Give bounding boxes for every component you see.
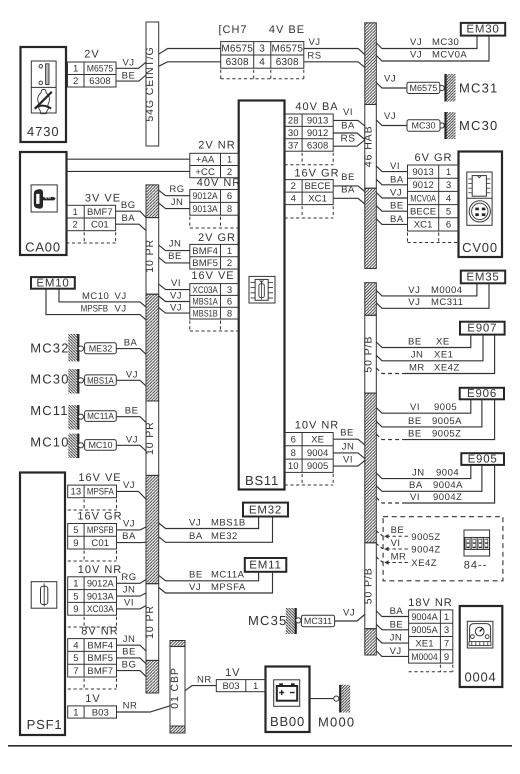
- svg-text:9012A: 9012A: [193, 191, 219, 202]
- trunk 50 P/B: [362, 283, 376, 655]
- svg-text:8: 8: [291, 448, 296, 459]
- wire JN BS11 9004 to trunk 50 P/B: [333, 441, 365, 458]
- svg-text:1: 1: [253, 681, 258, 692]
- wire CA00 to BS11 pin +CC: [67, 170, 190, 172]
- node EM11: [245, 558, 286, 572]
- svg-text:8: 8: [227, 308, 232, 319]
- svg-text:MBS1B: MBS1B: [193, 308, 218, 319]
- svg-text:XE1: XE1: [434, 350, 453, 361]
- wire BE trunk 50 P/B to E906 (9005A): [376, 399, 482, 427]
- svg-text:13: 13: [71, 487, 82, 498]
- svg-text:8V NR: 8V NR: [81, 626, 118, 638]
- svg-text:NR: NR: [123, 701, 138, 712]
- svg-text:B03: B03: [222, 681, 239, 692]
- svg-text:50 P/B: 50 P/B: [362, 567, 374, 604]
- svg-text:9005: 9005: [307, 461, 329, 472]
- svg-text:BE: BE: [122, 647, 136, 658]
- svg-text:40V BA: 40V BA: [295, 101, 338, 113]
- component PSF1 engine fuse box: [20, 473, 65, 736]
- svg-text:M6575: M6575: [87, 64, 114, 75]
- connector 10V NR of BS11: [285, 420, 340, 486]
- svg-text:VJ: VJ: [170, 303, 182, 314]
- ground MC10: [30, 434, 116, 459]
- ground MC35: [286, 608, 335, 634]
- svg-text:1V: 1V: [85, 693, 100, 705]
- trunk 46 HAB: [362, 23, 376, 269]
- svg-text:VJ: VJ: [189, 582, 201, 593]
- wire BG from CA00 BMF7 to trunk 10 PR: [116, 200, 146, 218]
- svg-text:VI: VI: [390, 161, 400, 172]
- svg-text:CA00: CA00: [25, 240, 61, 255]
- wire VJ PSF1 MPSFA to trunk 10 PR: [117, 480, 147, 499]
- svg-text:M6575: M6575: [409, 83, 437, 93]
- wire BE trunk 54G to CH7 pin4: [159, 62, 221, 67]
- svg-text:BMF4: BMF4: [87, 640, 113, 651]
- svg-text:M000: M000: [318, 715, 355, 730]
- wire RS CH7 to trunk 46 HAB: [304, 50, 365, 67]
- wire BA trunk 50 P/B to 0004: [376, 606, 408, 617]
- svg-text:8: 8: [227, 204, 232, 215]
- svg-text:3: 3: [446, 180, 451, 191]
- node E906: [460, 388, 504, 400]
- svg-text:M6575: M6575: [272, 44, 304, 55]
- wire BA trunk 50 P/B to E905 (9004A): [376, 465, 482, 491]
- wire JN PSF1 BMF4 to trunk 10 PR: [117, 634, 147, 651]
- wire BA BS11 XC1 to trunk 46 HAB: [333, 185, 365, 204]
- svg-text:VI: VI: [343, 455, 353, 466]
- trunk 54G CEINT/G: [144, 22, 159, 146]
- wire VJ trunk 46 HAB to ground MC31: [376, 74, 407, 89]
- wire VJ CH7 to trunk 46 HAB: [304, 37, 365, 55]
- svg-text:6308: 6308: [89, 76, 111, 87]
- svg-text:2V: 2V: [84, 49, 99, 61]
- svg-text:4730: 4730: [27, 124, 60, 139]
- wire BA BS11 9012 to trunk 46 HAB: [333, 120, 365, 139]
- svg-text:VJ: VJ: [170, 290, 182, 301]
- svg-text:BE: BE: [189, 570, 203, 581]
- svg-text:VI: VI: [391, 538, 401, 549]
- wire VI PSF1 XC03A to trunk 10 PR: [117, 598, 147, 609]
- svg-text:3: 3: [259, 44, 265, 55]
- wire BE BS11 XE to trunk 50 P/B: [333, 428, 365, 445]
- svg-text:BE: BE: [122, 70, 136, 81]
- svg-text:7: 7: [444, 638, 449, 649]
- node EM10: [31, 277, 75, 289]
- svg-text:50 P/B: 50 P/B: [362, 336, 374, 373]
- svg-text:BA: BA: [189, 531, 203, 542]
- wire RG PSF1 9012A to trunk 10 PR: [117, 572, 147, 583]
- svg-text:46 HAB: 46 HAB: [362, 126, 374, 168]
- svg-text:RG: RG: [169, 184, 184, 195]
- svg-text:BE: BE: [408, 429, 422, 440]
- svg-text:16V GR: 16V GR: [294, 167, 339, 179]
- wire JN PSF1 9013A to trunk 10 PR: [117, 585, 147, 596]
- svg-text:BA: BA: [390, 606, 404, 617]
- svg-text:54G CEINT/G: 54G CEINT/G: [144, 46, 156, 121]
- svg-text:MPSFB: MPSFB: [87, 525, 114, 536]
- svg-text:9013: 9013: [307, 116, 329, 127]
- wire NR PSF1 B03 to trunk 01 CBP: [117, 701, 171, 712]
- svg-text:1: 1: [446, 167, 451, 178]
- wire BE trunk 46 HAB to CV00 pin 3: [376, 201, 407, 212]
- node EM30: [461, 23, 505, 36]
- svg-text:9: 9: [73, 604, 78, 615]
- svg-text:9005A: 9005A: [411, 625, 438, 636]
- svg-text:MC32: MC32: [30, 341, 69, 356]
- svg-text:PSF1: PSF1: [27, 717, 63, 732]
- svg-text:MC311: MC311: [431, 297, 463, 308]
- svg-text:M0004: M0004: [431, 285, 463, 296]
- svg-text:40V NR: 40V NR: [197, 177, 242, 189]
- svg-text:XE4Z: XE4Z: [434, 362, 460, 373]
- connector 3V VE of CA00: [66, 193, 121, 244]
- svg-text:MPSFA: MPSFA: [211, 582, 246, 593]
- wire RS BS11 6308 to trunk 46 HAB: [333, 134, 365, 147]
- component 4730 seat-belt pretensioner: [21, 47, 67, 142]
- svg-text:2: 2: [227, 258, 232, 269]
- svg-text:VJ: VJ: [126, 434, 138, 445]
- node E905: [461, 453, 504, 465]
- svg-text:2V NR: 2V NR: [198, 140, 235, 152]
- svg-text:9: 9: [73, 538, 78, 549]
- svg-text:5: 5: [73, 591, 78, 602]
- wire VJ trunk 46 HAB to EM30 (MC30): [376, 36, 477, 49]
- connector 8V NR of PSF1: [68, 626, 119, 689]
- svg-text:9005Z: 9005Z: [432, 429, 461, 440]
- connector 1V of BB00: [216, 667, 265, 692]
- svg-text:5: 5: [446, 207, 451, 218]
- svg-text:MC30: MC30: [30, 372, 69, 387]
- svg-text:9: 9: [444, 652, 449, 663]
- svg-text:BA: BA: [409, 480, 423, 491]
- svg-text:BA: BA: [124, 338, 138, 349]
- svg-text:MC11A: MC11A: [211, 570, 245, 581]
- connector 6V GR of CV00: [408, 152, 459, 243]
- svg-text:6308: 6308: [276, 57, 299, 68]
- svg-text:9004A: 9004A: [411, 612, 438, 623]
- svg-text:EM10: EM10: [36, 277, 69, 289]
- svg-text:7: 7: [73, 666, 78, 677]
- svg-text:MC311: MC311: [304, 616, 332, 626]
- connector 16V GR of BS11: [285, 167, 340, 218]
- wire BG PSF1 BMF7 to trunk 10 PR: [117, 659, 147, 676]
- svg-text:3: 3: [444, 625, 449, 636]
- svg-text:16V GR: 16V GR: [77, 511, 122, 523]
- svg-text:MR: MR: [409, 362, 425, 373]
- wire BA trunk 46 HAB to CV00 pin 1: [376, 174, 407, 185]
- svg-text:2V GR: 2V GR: [198, 232, 236, 244]
- ground MC30 body: [30, 369, 116, 394]
- ground MC32: [30, 334, 116, 362]
- svg-text:MC35: MC35: [248, 613, 287, 628]
- connector 18V NR of 0004: [408, 597, 453, 672]
- svg-text:EM32: EM32: [249, 504, 282, 516]
- svg-text:XE: XE: [436, 336, 450, 347]
- svg-text:+AA: +AA: [196, 155, 215, 166]
- svg-text:16V VE: 16V VE: [191, 270, 234, 282]
- svg-text:VJ: VJ: [384, 74, 396, 85]
- svg-text:XE4Z: XE4Z: [411, 558, 437, 569]
- svg-text:JN: JN: [411, 350, 424, 361]
- svg-text:BECE: BECE: [410, 207, 436, 218]
- svg-text:MC30: MC30: [411, 121, 435, 131]
- wire VJ from 4730 pin1 to trunk 54G: [116, 58, 146, 69]
- svg-text:2: 2: [291, 181, 296, 192]
- wire JN trunk 50 P/B to E905 (9004): [376, 465, 471, 479]
- svg-text:CV00: CV00: [462, 240, 498, 255]
- svg-text:BB00: BB00: [270, 714, 305, 729]
- connector CH7 intermediate (4V BE): [218, 24, 305, 79]
- wire VJ PSF1 MPSFB to trunk 10 PR: [117, 518, 147, 530]
- ground MC31: [407, 74, 499, 102]
- svg-text:VJ: VJ: [115, 291, 127, 302]
- svg-text:9013A: 9013A: [193, 204, 219, 215]
- svg-text:VJ: VJ: [308, 37, 320, 48]
- wire VJ EM10 to trunk 10 PR (MPSFB): [46, 289, 146, 320]
- svg-text:1: 1: [444, 612, 449, 623]
- svg-text:30: 30: [288, 128, 299, 139]
- svg-text:E905: E905: [468, 454, 498, 466]
- svg-text:MCV0A: MCV0A: [432, 50, 467, 61]
- svg-text:XC1: XC1: [414, 220, 433, 231]
- svg-text:BG: BG: [122, 659, 137, 670]
- connector 10V NR of PSF1: [68, 564, 123, 627]
- svg-text:BA: BA: [390, 174, 404, 185]
- svg-text:MCV0A: MCV0A: [410, 193, 436, 204]
- svg-text:6308: 6308: [307, 140, 329, 151]
- svg-text:1: 1: [72, 207, 77, 218]
- wire VJ trunk 10 PR to BS11 MBS1A: [159, 290, 190, 301]
- svg-text:MC10: MC10: [30, 435, 69, 450]
- svg-text:JN: JN: [123, 634, 136, 645]
- wire BE trunk 10 PR to EM11 (MC11A): [159, 570, 259, 581]
- svg-text:BMF5: BMF5: [87, 653, 113, 664]
- svg-text:BG: BG: [121, 200, 136, 211]
- svg-text:9012: 9012: [307, 128, 329, 139]
- svg-text:9004: 9004: [307, 448, 329, 459]
- svg-text:BS11: BS11: [245, 473, 279, 488]
- node E907: [460, 322, 505, 335]
- svg-text:VJ: VJ: [123, 518, 135, 529]
- svg-text:BMF7: BMF7: [87, 666, 113, 677]
- svg-text:M6575: M6575: [221, 44, 253, 55]
- svg-text:1: 1: [227, 246, 232, 257]
- wire BA trunk 10 PR to EM32 (ME32): [159, 517, 273, 543]
- svg-text:C01: C01: [91, 538, 109, 549]
- svg-text:10: 10: [288, 461, 299, 472]
- wire BE trunk 50 P/B to E906 (9005Z, partly dashed): [376, 399, 494, 439]
- svg-text:5: 5: [73, 525, 78, 536]
- connector 1V of PSF1: [68, 693, 117, 718]
- svg-text:BE: BE: [168, 251, 182, 262]
- component BS11 body control unit: [239, 101, 285, 490]
- svg-text:JN: JN: [412, 468, 425, 479]
- svg-text:9004: 9004: [436, 468, 459, 479]
- svg-text:RG: RG: [121, 572, 136, 583]
- svg-text:MC30: MC30: [432, 37, 459, 48]
- connector 2V NR of BS11: [190, 140, 239, 178]
- svg-text:9012: 9012: [412, 180, 434, 191]
- svg-text:0004: 0004: [464, 670, 496, 685]
- wire NR trunk 01 CBP to BB00 B03: [185, 675, 216, 691]
- wire MR trunk 50 P/B to E907 (XE4Z, partly dashed): [376, 335, 494, 374]
- svg-text:10 PR: 10 PR: [144, 239, 156, 273]
- svg-text:BMF7: BMF7: [87, 207, 113, 218]
- wire VJ trunk 46 HAB to ground MC30: [376, 111, 407, 126]
- svg-text:1: 1: [73, 707, 78, 718]
- wire VJ trunk 10 PR to EM32 (MBS1B): [159, 517, 259, 529]
- wire BE ground MC11 to trunk 10 PR: [116, 406, 146, 423]
- wire VJ ground MC35 to trunk 50 P/B: [335, 608, 365, 622]
- svg-text:01 CBP: 01 CBP: [169, 667, 181, 709]
- svg-text:10 PR: 10 PR: [144, 605, 156, 639]
- svg-text:VJ: VJ: [410, 37, 422, 48]
- svg-text:BE: BE: [408, 416, 422, 427]
- component CV00 diagnostic connector: [459, 152, 503, 258]
- svg-text:EM35: EM35: [466, 271, 499, 283]
- svg-text:10V NR: 10V NR: [78, 564, 123, 576]
- trunk 01 CBP: [169, 641, 185, 734]
- wire BA trunk 46 HAB to CV00 pin 4: [376, 214, 407, 225]
- svg-text:BA: BA: [121, 213, 135, 224]
- label MC35: [248, 613, 287, 628]
- svg-text:37: 37: [288, 140, 299, 151]
- node EM35: [461, 271, 505, 284]
- svg-text:BA: BA: [122, 531, 136, 542]
- wire VJ trunk 46 HAB to EM30 (MCV0A): [376, 36, 489, 61]
- svg-text:1: 1: [73, 579, 78, 590]
- svg-text:[CH7: [CH7: [218, 24, 247, 36]
- svg-text:9013A: 9013A: [87, 591, 115, 602]
- wire VI BS11 9013 to trunk 46 HAB: [333, 107, 365, 126]
- wire VJ ground MC30 to trunk 10 PR: [116, 369, 146, 386]
- svg-text:5: 5: [73, 653, 78, 664]
- svg-text:RS: RS: [307, 50, 321, 61]
- connector 16V VE of PSF1: [68, 472, 122, 510]
- wire RG trunk 10 PR to BS11 9012A: [159, 184, 190, 196]
- svg-text:16V VE: 16V VE: [78, 472, 121, 484]
- page footer rule: [8, 745, 512, 747]
- svg-text:VJ: VJ: [343, 608, 355, 619]
- svg-text:MC11A: MC11A: [87, 411, 114, 421]
- svg-text:9004A: 9004A: [433, 480, 463, 491]
- wire VI trunk 50 P/B to E905 (9004Z, partly dashed): [376, 465, 494, 503]
- wire BE from 4730 pin2 to trunk 54G: [116, 70, 146, 81]
- svg-text:3: 3: [227, 285, 232, 296]
- svg-text:JN: JN: [123, 585, 136, 596]
- svg-text:VJ: VJ: [390, 188, 402, 199]
- svg-text:VI: VI: [124, 598, 134, 609]
- wire BE PSF1 BMF5 to trunk 10 PR: [117, 647, 147, 664]
- svg-text:MPSFB: MPSFB: [81, 304, 109, 315]
- svg-text:9005: 9005: [434, 402, 457, 413]
- svg-text:ME32: ME32: [89, 343, 113, 353]
- svg-text:6: 6: [227, 297, 232, 308]
- svg-text:JN: JN: [169, 239, 182, 250]
- svg-text:84--: 84--: [464, 559, 488, 571]
- wire BA PSF1 C01 to trunk 10 PR: [117, 531, 147, 542]
- svg-text:BECE: BECE: [305, 181, 331, 192]
- svg-text:4: 4: [446, 193, 451, 204]
- wire VJ trunk 10 PR to BS11 MBS1B: [159, 303, 190, 314]
- wire JN trunk 50 P/B to 0004: [376, 633, 408, 644]
- option box 84 (splices 9005Z 9004Z XE4Z): [376, 517, 503, 581]
- svg-text:MR: MR: [391, 551, 407, 562]
- svg-text:VJ: VJ: [410, 50, 422, 61]
- wire BE trunk 50 P/B to 0004: [376, 619, 408, 630]
- svg-text:28: 28: [288, 116, 299, 127]
- svg-text:BMF5: BMF5: [192, 258, 218, 269]
- svg-text:ME32: ME32: [211, 531, 238, 542]
- svg-text:XE: XE: [311, 434, 324, 445]
- connector 2V GR of BS11: [190, 232, 239, 269]
- svg-text:VJ: VJ: [390, 646, 402, 657]
- svg-text:2: 2: [73, 76, 78, 87]
- ground M000: [318, 685, 355, 730]
- svg-text:MC10: MC10: [88, 440, 112, 450]
- trunk 10 PR: [144, 185, 159, 693]
- wire BE BS11 BECE to trunk 46 HAB: [333, 172, 365, 191]
- component BB00 battery: [266, 667, 310, 733]
- wire VJ trunk 10 PR to EM11 (MPSFA): [159, 572, 273, 593]
- svg-text:VI: VI: [171, 278, 181, 289]
- connector 16V VE of BS11: [190, 270, 239, 331]
- svg-text:BE: BE: [125, 406, 139, 417]
- svg-text:VJ: VJ: [126, 369, 138, 380]
- svg-text:MBS1A: MBS1A: [87, 375, 114, 385]
- wire JN trunk 10 PR to BS11 BMF4: [159, 239, 190, 251]
- svg-text:9004Z: 9004Z: [433, 492, 462, 503]
- svg-text:9012A: 9012A: [87, 579, 115, 590]
- svg-text:10V NR: 10V NR: [295, 420, 340, 432]
- wire VJ trunk 46 HAB to CV00 pin 2: [376, 188, 407, 199]
- svg-text:VJ: VJ: [115, 304, 127, 315]
- wire BE trunk 50 P/B to E907 (XE): [376, 335, 471, 348]
- connector 40V BA of BS11: [285, 101, 339, 165]
- svg-text:BE: BE: [390, 201, 404, 212]
- svg-text:MC10: MC10: [82, 291, 109, 302]
- svg-text:JN: JN: [171, 197, 184, 208]
- wire VJ ground MC10 to trunk 10 PR: [116, 434, 146, 451]
- svg-text:JN: JN: [390, 633, 403, 644]
- svg-text:6: 6: [291, 434, 296, 445]
- wire VI trunk 50 P/B to E906 (9005): [376, 399, 471, 413]
- node EM32: [243, 503, 288, 517]
- svg-text:NR: NR: [197, 675, 212, 686]
- svg-text:6: 6: [227, 191, 232, 202]
- svg-text:EM30: EM30: [466, 24, 499, 36]
- connector 16V GR of PSF1: [68, 511, 123, 562]
- connector 40V NR of BS11: [190, 177, 241, 228]
- svg-text:BE: BE: [408, 336, 422, 347]
- svg-text:1: 1: [227, 155, 232, 166]
- wire BE trunk 10 PR to BS11 BMF5: [159, 251, 190, 263]
- svg-text:MBS1B: MBS1B: [211, 517, 246, 528]
- svg-text:M0004: M0004: [411, 652, 437, 663]
- svg-text:BE: BE: [341, 172, 355, 183]
- svg-text:RS: RS: [341, 134, 356, 145]
- wire BA ground MC32 to trunk 10 PR: [116, 338, 146, 355]
- svg-text:1V: 1V: [225, 667, 240, 679]
- svg-text:E907: E907: [467, 323, 497, 335]
- wire JN trunk 10 PR to BS11 9013A: [159, 197, 190, 209]
- wire VJ EM10 to trunk 10 PR (MC10): [59, 289, 146, 307]
- svg-text:VI: VI: [410, 492, 420, 503]
- svg-text:MPSFA: MPSFA: [87, 487, 114, 498]
- svg-text:VJ: VJ: [189, 517, 201, 528]
- svg-text:9013: 9013: [412, 167, 434, 178]
- svg-text:18V NR: 18V NR: [408, 597, 453, 609]
